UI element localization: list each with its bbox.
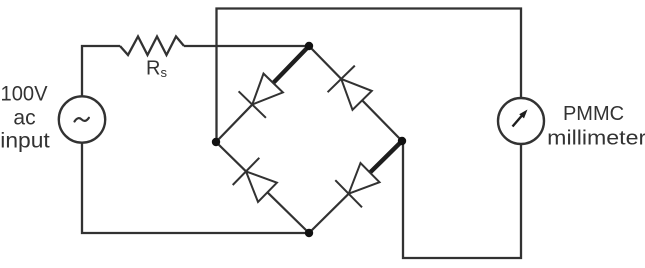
- node bottom junction: [305, 229, 313, 237]
- wire source bottom to bottom node: [82, 143, 309, 233]
- PMMC meter M1: [498, 98, 544, 144]
- svg-text:100V: 100V: [1, 83, 48, 106]
- meter needle: [513, 116, 523, 127]
- node top junction: [305, 42, 313, 50]
- svg-text:input: input: [0, 130, 50, 153]
- wire source to resistor: [82, 46, 120, 97]
- diode D3 bottom-left: [216, 142, 309, 233]
- diode D1 top-left: [216, 46, 309, 142]
- diode D4 bottom-right: [309, 141, 402, 233]
- ac source tilde: [75, 118, 89, 122]
- node left junction: [212, 138, 220, 146]
- wire meter bottom loop: [403, 141, 521, 258]
- node right junction: [398, 137, 406, 145]
- wire top rail: [217, 9, 522, 143]
- svg-text:PMMC: PMMC: [563, 103, 624, 125]
- diode D2 top-right: [309, 46, 402, 141]
- svg-text:Rs: Rs: [146, 58, 167, 80]
- svg-text:ac: ac: [13, 107, 35, 130]
- wire resistor to top node: [184, 45, 309, 47]
- svg-text:millimeter: millimeter: [547, 128, 645, 150]
- ac source circle: [59, 96, 105, 142]
- meter needle arrowhead: [519, 110, 527, 119]
- resistor Rs: [120, 37, 184, 56]
